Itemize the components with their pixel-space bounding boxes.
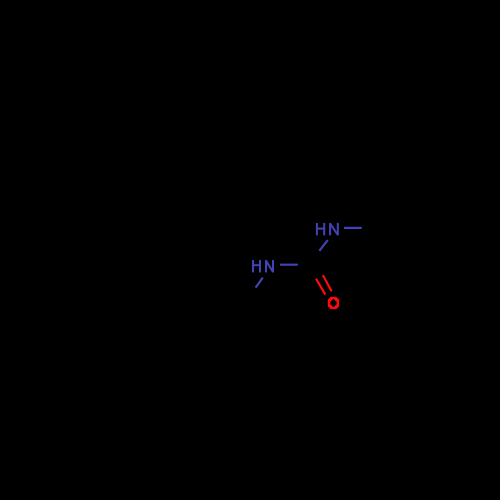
letter H of upper HN <box>316 223 318 235</box>
bond N2-C1 nitrogen half (blue) <box>319 240 327 251</box>
atom label N-H lower (HN of left-hand amide nitrogen N1) <box>252 260 273 272</box>
bond N1-C1 nitrogen half (blue) <box>280 264 298 266</box>
letter H of lower HN <box>252 260 254 272</box>
bond C1-N1 carbon half <box>298 262 313 265</box>
bond C1=O1 oxygen halves (red double bond) <box>323 275 332 291</box>
bond N1-C2 carbon half <box>248 288 255 298</box>
bond N1-C2 nitrogen half (blue) <box>256 278 263 288</box>
bond N2-C7 nitrogen half (blue) <box>344 227 362 229</box>
bond C1=O1 carbon halves <box>314 260 323 276</box>
carbon skeleton (black, invisible on black background) <box>96 190 466 343</box>
letter N of upper HN <box>329 223 331 235</box>
atom label N-H upper (HN of right-hand amide nitrogen N2) <box>316 223 338 235</box>
alkyl chain C2-C3-C4-C5-C6 <box>96 292 249 342</box>
letter N of lower HN <box>265 260 267 272</box>
bond C1-N2 carbon half <box>313 251 319 261</box>
cyclohexyl ring C7-C8-C9-C10-C11-C12 <box>380 190 467 265</box>
atom label O (carbonyl oxygen O1) <box>328 297 339 309</box>
bond N2-C7 carbon half <box>362 226 380 229</box>
